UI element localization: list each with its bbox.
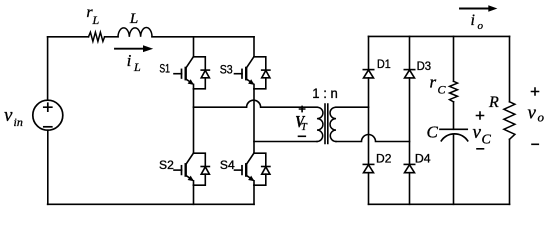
svg-text:i: i [471,12,475,29]
wire L to bridge top [152,36,254,38]
svg-text:i: i [127,51,132,70]
wire r_C branch top [453,36,455,81]
wire node B to primary bottom [254,141,317,143]
diode of S4 [254,153,270,185]
svg-text:D2: D2 [376,152,392,166]
V_T plus sign [300,106,305,111]
svg-text:o: o [538,110,545,125]
svg-text:o: o [478,20,484,32]
V_T minus sign [299,135,306,137]
wire r_L to L [105,36,118,38]
wire D3-D4 branch (node secondary bottom) [409,78,411,164]
svg-text:S1: S1 [159,63,170,75]
v_in plus sign [44,103,52,111]
resistor R [504,102,515,140]
v_C minus sign [477,148,484,150]
wire top rail right [369,35,510,37]
svg-text:D1: D1 [377,57,391,71]
transistor S4 (IGBT) [235,153,255,185]
diode of S3 [254,57,270,89]
transformer secondary winding [330,107,336,141]
wire r_C to C [453,102,455,130]
transformer primary winding [317,107,323,141]
wire node A to primary top with crossover hop [194,100,318,107]
resistor r_L [89,32,105,41]
svg-text:D4: D4 [415,152,431,166]
wire R branch top [509,36,511,101]
wire D3 branch top [409,36,411,69]
svg-text:in: in [14,115,23,129]
svg-text:v: v [4,105,13,126]
svg-text:v: v [528,103,537,124]
v_in minus sign [44,126,52,128]
wire secondary bottom lead with crossover hop [336,135,410,142]
wire bottom rail left [48,203,254,205]
svg-text:v: v [473,122,482,143]
transformer core [325,104,328,144]
arrow i_L [115,45,153,52]
wire left vertical bottom [47,130,49,204]
svg-text:1 : n: 1 : n [312,86,338,101]
svg-text:S2: S2 [159,160,174,172]
svg-text:r: r [430,73,437,92]
svg-text:L: L [129,11,138,27]
diode D1 [363,70,373,78]
svg-text:T: T [301,122,308,133]
wire R to bottom rail [509,139,511,204]
wire D2 to bottom rail [368,173,370,205]
v_C plus sign [477,112,484,119]
wire secondary top lead [336,106,369,108]
svg-text:S4: S4 [220,160,235,172]
wire top rail left (v_in to r_L) [48,36,89,38]
transistor S3 (IGBT) [235,57,255,89]
wire D1-D2 branch (node secondary top) [368,78,370,164]
arrow i_o [460,5,497,12]
source v_in circle [33,100,63,130]
diode D2 [363,164,373,172]
diode D3 [404,70,414,78]
transistor S1 (IGBT) [174,57,194,89]
svg-text:C: C [482,133,492,148]
wire S1 leg top [193,37,195,57]
wire C to bottom rail [453,135,455,204]
svg-text:L: L [133,60,141,74]
wire S4 leg bottom [253,185,255,204]
wire bottom rail right [369,203,510,205]
wire S3 to node B [253,89,255,153]
diode of S1 [194,57,210,89]
wire D4 to bottom rail [409,173,411,205]
capacitor C [440,129,468,141]
wire D1 branch top [368,36,370,69]
svg-text:C: C [438,83,447,97]
svg-text:D3: D3 [417,59,432,73]
svg-text:L: L [92,13,100,27]
v_o minus sign [532,143,538,145]
v_o plus sign [532,88,539,95]
svg-text:C: C [427,123,439,142]
inductor L [118,28,152,37]
svg-text:R: R [488,94,499,111]
svg-text:S3: S3 [220,65,233,77]
wire left vertical top (rail to v_in +) [47,37,49,100]
wire S2 leg bottom [193,185,195,204]
diode D4 [404,164,414,172]
wire S1 to node A [193,89,195,153]
transistor S2 (IGBT) [174,153,194,185]
diode of S2 [194,153,210,185]
wire S3 leg top [253,37,255,57]
resistor r_C [450,81,458,102]
